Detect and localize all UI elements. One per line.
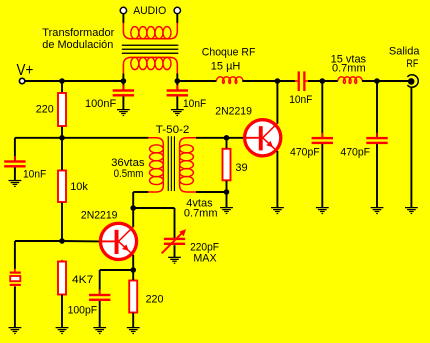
toroid T2 primary winding 36vtas	[148, 138, 163, 192]
toroid T2 secondary winding 4vtas	[180, 138, 197, 192]
svg-text:220: 220	[36, 104, 54, 116]
inductor L2 15vtas 0.7mm	[338, 77, 363, 84]
svg-text:10nF: 10nF	[183, 98, 206, 110]
wire Q2 collector	[276, 81, 278, 124]
svg-text:2N2219: 2N2219	[81, 210, 118, 222]
ground crystal	[9, 327, 22, 334]
wire R2 to node B	[61, 203, 63, 242]
svg-text:2N2219: 2N2219	[215, 106, 252, 118]
wire node B to crystal	[15, 240, 62, 242]
transistor Q2 2N2219	[245, 120, 281, 156]
wire C6 lead down	[376, 81, 378, 137]
node D Q1 emitter	[130, 267, 136, 273]
wire C1 to ground	[122, 97, 124, 110]
svg-text:AUDIO: AUDIO	[133, 5, 166, 17]
wire node A to toroid	[62, 137, 149, 139]
transformer T1 secondary winding	[123, 57, 177, 73]
node rail-C6	[374, 78, 380, 84]
capacitor C3 10nF series	[295, 71, 309, 91]
wire R3 to node F	[226, 181, 228, 192]
resistor R4 4K7	[58, 260, 66, 296]
connector Salida RF	[407, 75, 418, 87]
svg-text:V+: V+	[17, 62, 34, 79]
node rail-C5	[320, 78, 326, 84]
wire varcap to ground	[174, 245, 176, 257]
wire secondary right lead	[176, 74, 178, 82]
svg-text:100pF: 100pF	[68, 304, 98, 316]
svg-text:0.7mm: 0.7mm	[332, 62, 366, 74]
svg-text:39: 39	[235, 162, 247, 174]
ground C5	[316, 207, 329, 214]
ground C6	[371, 207, 384, 214]
wire output down	[410, 87, 412, 207]
inductor L1 Choque RF 15uH	[216, 77, 243, 84]
terminal AUDIO right	[174, 7, 180, 13]
transformer T1 core	[122, 45, 179, 54]
wire node E to R3	[226, 138, 228, 149]
wire toroid top right to node E	[196, 137, 227, 139]
wire toroid bottom left	[133, 191, 148, 193]
wire secondary left lead	[122, 74, 124, 82]
wire Q2 emitter	[276, 151, 278, 208]
wire Q1 emitter	[132, 255, 134, 270]
svg-text:15 µH: 15 µH	[211, 60, 241, 72]
wire rail to choke	[177, 80, 216, 82]
terminal AUDIO left	[120, 7, 126, 13]
capacitor C6 470pF	[366, 133, 387, 149]
wire node B to Q1 base	[62, 240, 101, 242]
wire audio right lead	[176, 14, 178, 23]
ground R4	[56, 327, 69, 334]
capacitor C4 10nF	[4, 156, 25, 172]
wire C6 to ground	[376, 144, 378, 208]
terminal V+	[19, 78, 24, 83]
wire C2 to ground	[176, 97, 178, 110]
wire C4 to ground	[14, 168, 16, 181]
node B Q1 base	[59, 238, 65, 244]
wire R5 to ground	[132, 313, 134, 328]
node C Q1 collector	[130, 205, 136, 211]
node A R1-10k-toroid	[59, 135, 65, 141]
svg-text:470pF: 470pF	[290, 146, 320, 158]
wire node A to R2	[61, 138, 63, 170]
svg-text:RF: RF	[406, 58, 418, 70]
capacitor C2 10nF	[167, 85, 188, 101]
wire node E to Q2 base	[227, 137, 246, 139]
capacitor C7 220pF MAX variable	[162, 229, 186, 253]
wire crystal lead down	[14, 241, 16, 269]
crystal X1	[10, 269, 21, 288]
wire Q1 collector	[132, 208, 134, 227]
svg-text:10nF: 10nF	[23, 168, 46, 180]
svg-text:MAX: MAX	[193, 252, 217, 264]
wire C8 to ground	[99, 301, 101, 328]
ground node F	[220, 207, 233, 214]
wire rail to R1	[61, 81, 63, 92]
ground C2	[171, 109, 184, 116]
wire node D to R5	[132, 270, 134, 280]
svg-text:10nF: 10nF	[289, 94, 312, 106]
wire choke to C3	[242, 80, 295, 82]
wire node F to ground	[226, 192, 228, 208]
svg-text:100nF: 100nF	[85, 98, 116, 110]
resistor R5 220	[129, 279, 137, 314]
resistor R2 10k	[58, 169, 66, 204]
wire crystal to ground	[14, 287, 16, 328]
ground C1	[117, 109, 130, 116]
wire node C to varcap	[133, 207, 174, 209]
wire R1 to node A	[61, 127, 63, 138]
toroid T2 core	[168, 136, 175, 191]
svg-text:220: 220	[146, 294, 164, 306]
wire audio left lead	[122, 14, 124, 23]
node F R3 bottom	[224, 189, 230, 195]
ground varcap	[168, 257, 181, 264]
ground C4	[9, 180, 22, 187]
resistor R3 39	[223, 147, 231, 182]
wire C4 lead down	[14, 138, 16, 161]
wire C2 lead down	[176, 81, 178, 90]
capacitor C8 100pF	[89, 290, 110, 306]
node rail-R1	[59, 78, 65, 84]
svg-text:4K7: 4K7	[72, 274, 93, 286]
svg-text:0.5mm: 0.5mm	[114, 168, 144, 180]
wire C3 to L2	[308, 80, 338, 82]
resistor R1 220	[58, 91, 66, 127]
ground C8	[93, 327, 106, 334]
node E Q2 base	[224, 135, 230, 141]
svg-text:10k: 10k	[70, 181, 88, 193]
transformer T1 primary winding	[123, 23, 177, 39]
wire C1 lead down	[122, 81, 124, 90]
wire L2 to output	[362, 80, 409, 82]
wire toroid left down to node C	[132, 192, 134, 208]
wire V+ rail left	[25, 80, 123, 82]
ground output	[405, 207, 418, 214]
capacitor C1 100nF	[113, 85, 134, 101]
wire toroid bottom right to node F	[196, 191, 227, 193]
ground Q2 emitter	[271, 207, 284, 214]
capacitor C5 470pF	[312, 133, 333, 149]
svg-text:de Modulación: de Modulación	[42, 39, 113, 51]
ground R5	[127, 327, 140, 334]
svg-text:T-50-2: T-50-2	[156, 124, 190, 136]
svg-text:470pF: 470pF	[340, 146, 370, 158]
wire node D to C8	[100, 269, 134, 271]
wire C8 lead down	[99, 270, 101, 294]
svg-text:Salida: Salida	[389, 46, 420, 58]
wire R4 to ground	[61, 295, 63, 328]
svg-text:Transformador: Transformador	[42, 27, 114, 39]
wire varcap lead down	[174, 208, 176, 238]
node rail-C1	[121, 78, 127, 84]
wire node A to C4	[15, 137, 62, 139]
node rail-C2	[175, 78, 181, 84]
svg-text:0.7mm: 0.7mm	[184, 208, 218, 220]
wire C5 to ground	[321, 144, 323, 208]
svg-text:Choque RF: Choque RF	[202, 46, 256, 58]
wire C5 lead down	[321, 81, 323, 137]
transistor Q1 2N2219	[100, 223, 136, 259]
node Q2 collector rail	[275, 78, 281, 84]
